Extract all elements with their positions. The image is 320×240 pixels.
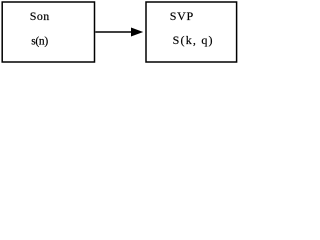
block: Son / s(n) box xyxy=(2,2,94,62)
block: SVP / S(k, q) box xyxy=(146,2,237,62)
svg-text:Son: Son xyxy=(30,9,50,23)
svg-text:s(n): s(n) xyxy=(31,35,48,47)
arrowhead xyxy=(131,28,143,37)
svg-text:S(k, q): S(k, q) xyxy=(173,33,214,47)
svg-text:SVP: SVP xyxy=(170,9,194,23)
wire: arrow shaft from Son box to SVP box xyxy=(95,31,132,33)
